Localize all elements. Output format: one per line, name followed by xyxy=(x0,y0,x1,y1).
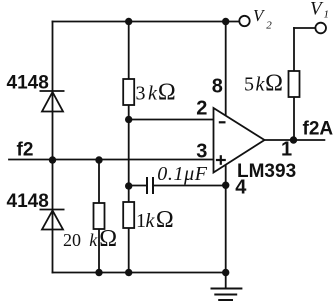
terminal V1 xyxy=(315,23,326,34)
svg-text:1: 1 xyxy=(281,139,292,161)
svg-text:1: 1 xyxy=(324,9,330,21)
wire output (pin 1 / f2A) xyxy=(265,139,325,141)
node pin2/3k xyxy=(125,116,132,123)
wire V1 horizontal xyxy=(294,27,315,29)
op-amp U1 LM393 triangle xyxy=(214,108,265,173)
node top/3k xyxy=(125,18,132,25)
wire pin 4 xyxy=(225,165,227,273)
wire capacitor left xyxy=(129,185,147,187)
resistor 20k xyxy=(94,203,105,229)
svg-text:LM393: LM393 xyxy=(237,161,296,182)
resistor 1k xyxy=(123,202,134,228)
svg-text:2: 2 xyxy=(266,20,272,32)
diode D1 4148 xyxy=(40,91,65,112)
wire bottom rail xyxy=(53,272,226,274)
terminal V2 xyxy=(239,16,249,26)
svg-text:0.1μF: 0.1μF xyxy=(157,163,207,185)
wire pin 2 xyxy=(129,119,214,121)
wire middle branch (3k/1k) xyxy=(128,22,130,273)
svg-text:f2: f2 xyxy=(17,140,34,161)
svg-text:20kΩ: 20kΩ xyxy=(63,226,117,252)
svg-text:2: 2 xyxy=(196,98,207,120)
svg-text:f2A: f2A xyxy=(303,119,334,140)
svg-text:4148: 4148 xyxy=(7,191,49,212)
wire 5k branch vertical xyxy=(293,28,295,140)
wire capacitor right xyxy=(153,185,226,187)
capacitor C 0.1uF plates xyxy=(147,177,153,194)
resistor 3k xyxy=(123,79,134,105)
node output/5k xyxy=(290,136,297,143)
diode D2 4148 xyxy=(40,210,65,230)
svg-text:3: 3 xyxy=(196,141,207,163)
svg-text:4148: 4148 xyxy=(7,73,49,94)
svg-text:8: 8 xyxy=(212,76,223,98)
wire pin 8 xyxy=(225,22,227,117)
node bottom/1k xyxy=(125,269,132,276)
wire left vertical xyxy=(52,22,54,273)
node cap/1k xyxy=(125,182,132,189)
resistor 5k xyxy=(289,71,300,97)
node f2/20k xyxy=(95,156,102,163)
wire top rail xyxy=(53,21,240,23)
wire f2 horizontal (pin 3 net) xyxy=(9,159,214,161)
node cap/pin4 xyxy=(222,182,229,189)
ground xyxy=(211,273,243,301)
node bottom/20k xyxy=(95,269,102,276)
svg-text:5kΩ: 5kΩ xyxy=(244,71,283,97)
svg-text:3kΩ: 3kΩ xyxy=(136,80,176,106)
node top/pin8 xyxy=(222,18,229,25)
node bottom/ground xyxy=(222,269,229,276)
wire 20k branch xyxy=(98,160,100,273)
node f2/left rail xyxy=(49,156,56,163)
